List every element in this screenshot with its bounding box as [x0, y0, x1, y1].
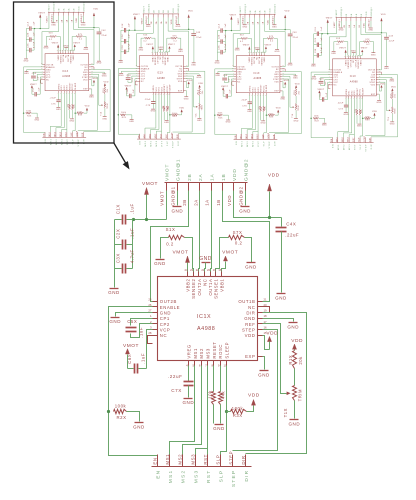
detailed schematic [107, 159, 307, 488]
selection box around first thumbnail [14, 2, 115, 143]
arrowhead [123, 161, 130, 169]
schematic thumbnail copy 4 [310, 6, 397, 151]
schematic thumbnail copy 2 [118, 3, 205, 148]
arrow from selection box to detail view [114, 143, 127, 165]
schematic thumbnail copy 1 [23, 1, 110, 146]
schematic thumbnail copy 3 [214, 3, 301, 148]
